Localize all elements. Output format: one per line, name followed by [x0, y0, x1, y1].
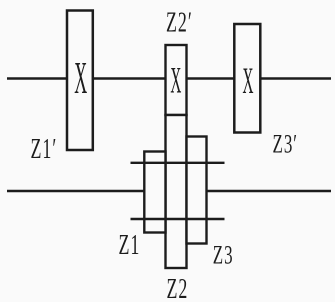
shaft II wire (bottom horizontal shaft line): [7, 190, 331, 192]
mesh line lower (horizontal line across cluster): [131, 218, 225, 220]
svg-text:Z1: Z1: [119, 230, 141, 261]
svg-text:Z2′: Z2′: [166, 8, 193, 39]
shaft I wire (top horizontal shaft line): [7, 77, 331, 80]
svg-text:Z3: Z3: [213, 240, 234, 270]
mesh line upper (horizontal line across cluster): [131, 162, 225, 164]
gear Z1 (left box of sliding cluster on shaft II): [144, 152, 165, 233]
svg-text:Z1′: Z1′: [31, 134, 58, 165]
gear Z2' (middle gear box on shaft I): [166, 45, 187, 115]
gear Z3' (right gear box on shaft I): [234, 24, 260, 133]
svg-text:Z3′: Z3′: [273, 129, 298, 159]
svg-text:Z2: Z2: [167, 274, 189, 302]
svg-text:X: X: [170, 61, 181, 102]
svg-text:X: X: [243, 62, 254, 103]
svg-text:X: X: [74, 52, 87, 103]
sleeve / gear Z2 column (vertical block from Z2' down to Z2): [166, 115, 187, 268]
gear Z3 (right box of sliding cluster on shaft II): [187, 137, 207, 244]
gear Z1' (left gear box on shaft I): [67, 11, 93, 151]
